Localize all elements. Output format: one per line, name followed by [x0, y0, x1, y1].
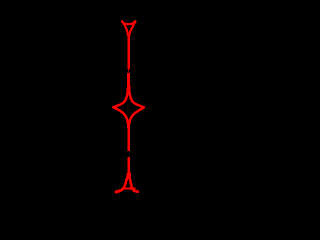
base crossbar — [122, 188, 136, 190]
base right leg — [129, 174, 138, 192]
base apex — [127, 173, 131, 179]
lower stem wire — [128, 157, 130, 174]
finial left horn — [121, 21, 123, 22]
upper stem wire — [128, 35, 130, 71]
base right foot pad — [134, 190, 137, 193]
pinch node — [128, 70, 130, 73]
base left foot pad — [116, 191, 120, 192]
base left leg — [116, 174, 128, 192]
middle stem wire — [128, 128, 130, 151]
four-point star ornament right half — [129, 73, 144, 128]
top finial cup — [122, 21, 135, 35]
four-point star ornament left half — [113, 73, 128, 128]
finial right horn — [135, 21, 137, 22]
